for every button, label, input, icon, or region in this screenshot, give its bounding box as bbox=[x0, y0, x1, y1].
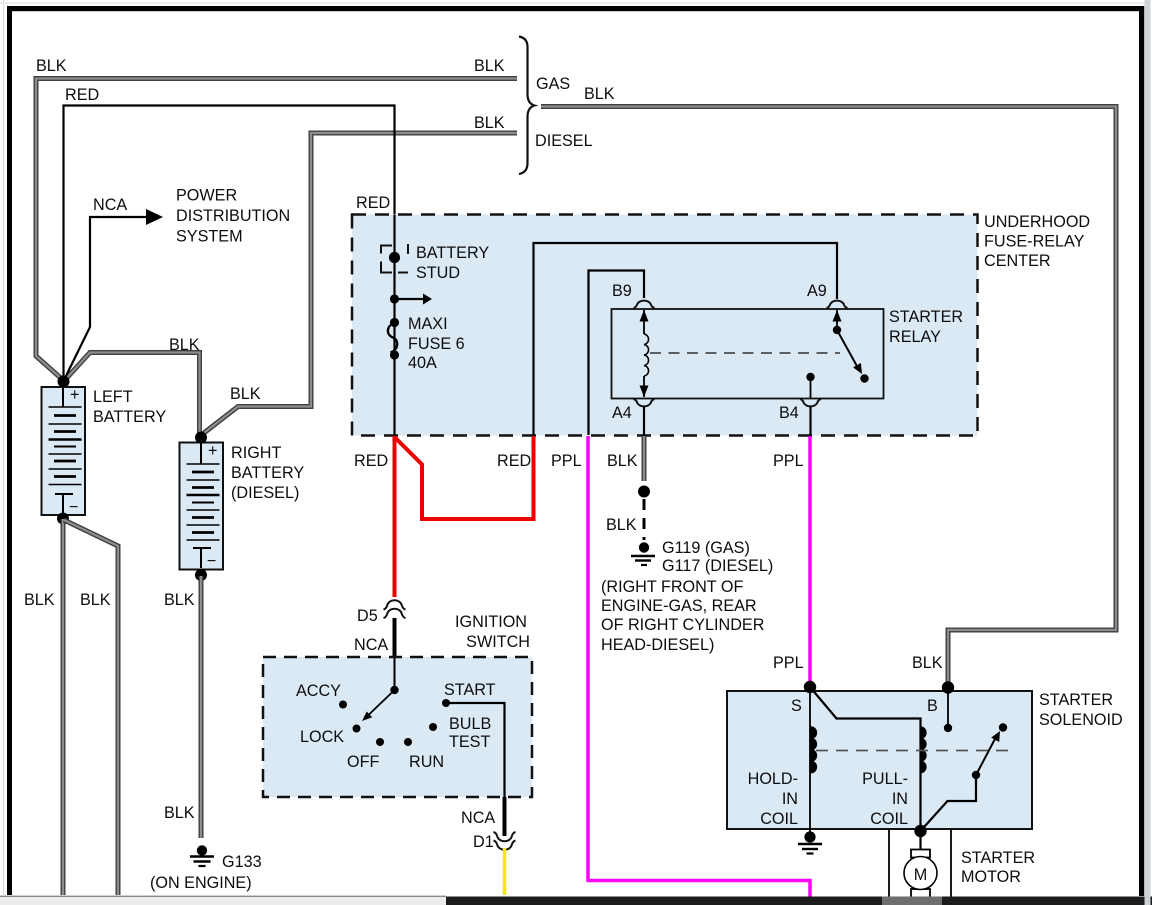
wire B9 coil feed inside box bbox=[589, 271, 645, 436]
pin B9 bbox=[634, 301, 655, 308]
bottom mask bar bbox=[0, 896, 446, 897]
wire BLK top-left to LEFT BATTERY bbox=[36, 79, 517, 381]
wire BLK left battery negative down bbox=[61, 519, 66, 895]
wire RED loop to A9 feed bbox=[395, 436, 534, 519]
battery RIGHT BATTERY (DIESEL) bbox=[180, 438, 224, 570]
svg-text:BLK: BLK bbox=[164, 804, 195, 822]
wire A9 feed inside box bbox=[534, 243, 838, 435]
svg-text:FUSE-RELAY: FUSE-RELAY bbox=[984, 233, 1085, 251]
node stud output junction with arrow tap bbox=[390, 294, 432, 305]
svg-text:GAS: GAS bbox=[536, 75, 570, 93]
svg-text:START: START bbox=[444, 681, 496, 699]
wire PPL B9 to bottom and across bbox=[588, 436, 810, 897]
svg-text:(RIGHT FRONT OF: (RIGHT FRONT OF bbox=[601, 578, 743, 596]
wire BLK A4 to ground bbox=[642, 436, 647, 481]
pin B4 bbox=[800, 399, 821, 406]
node B contact bbox=[944, 724, 952, 732]
fuse MAXI FUSE 6 40A bbox=[388, 318, 399, 360]
svg-text:BLK: BLK bbox=[169, 336, 200, 354]
svg-text:LOCK: LOCK bbox=[300, 728, 344, 746]
ignition switch wiper bbox=[362, 658, 399, 721]
ground solenoid hold-in coil bbox=[798, 831, 822, 853]
svg-text:LEFT: LEFT bbox=[93, 388, 133, 406]
node right battery negative bbox=[195, 569, 207, 581]
wire RED below fuse to D5 bbox=[393, 436, 397, 597]
svg-text:IN: IN bbox=[892, 790, 908, 808]
svg-text:MAXI: MAXI bbox=[408, 315, 448, 333]
svg-text:A9: A9 bbox=[807, 282, 827, 300]
svg-text:BLK: BLK bbox=[607, 452, 638, 470]
svg-text:SOLENOID: SOLENOID bbox=[1039, 711, 1123, 729]
svg-text:SYSTEM: SYSTEM bbox=[176, 228, 243, 246]
node B terminal bbox=[942, 681, 954, 693]
svg-text:IN: IN bbox=[782, 790, 798, 808]
relay coil (B9 to A4) bbox=[640, 310, 649, 397]
battery LEFT BATTERY bbox=[42, 383, 86, 516]
pin A4 bbox=[634, 399, 655, 406]
node left battery positive junction bbox=[58, 376, 70, 388]
wire PPL B4 to solenoid S bbox=[808, 436, 812, 684]
coil HOLD-IN COIL bbox=[811, 727, 816, 773]
svg-text:NCA: NCA bbox=[354, 636, 388, 654]
svg-text:−: − bbox=[69, 498, 78, 516]
svg-text:M: M bbox=[914, 866, 927, 884]
svg-text:BULB: BULB bbox=[449, 715, 491, 733]
wire BLK diesel branch to RIGHT BATTERY bbox=[200, 133, 517, 436]
box UNDERHOOD FUSE-RELAY CENTER bbox=[352, 215, 978, 436]
hold-in coil wire bbox=[809, 687, 811, 840]
svg-text:STARTER: STARTER bbox=[961, 849, 1035, 867]
svg-text:G119 (GAS): G119 (GAS) bbox=[662, 539, 750, 557]
svg-text:RELAY: RELAY bbox=[889, 328, 941, 346]
svg-text:ENGINE-GAS, REAR: ENGINE-GAS, REAR bbox=[601, 597, 757, 615]
arrow to POWER DISTRIBUTION SYSTEM bbox=[146, 209, 163, 225]
svg-text:BLK: BLK bbox=[912, 654, 943, 672]
node A4 ground splice bbox=[638, 486, 650, 498]
svg-text:RIGHT: RIGHT bbox=[231, 444, 281, 462]
solenoid switch arm arrow bbox=[976, 731, 1000, 775]
svg-text:(ON ENGINE): (ON ENGINE) bbox=[150, 874, 252, 892]
relay switch arm from A9 bbox=[833, 310, 869, 383]
svg-text:RUN: RUN bbox=[409, 753, 444, 771]
svg-text:STARTER: STARTER bbox=[1039, 691, 1113, 709]
svg-text:D1: D1 bbox=[473, 833, 494, 851]
svg-text:RED: RED bbox=[356, 194, 390, 212]
svg-text:BLK: BLK bbox=[164, 591, 195, 609]
svg-text:40A: 40A bbox=[408, 354, 437, 372]
svg-text:OF RIGHT CYLINDER: OF RIGHT CYLINDER bbox=[601, 616, 764, 634]
relay internal dashed link bbox=[650, 352, 840, 354]
svg-text:S: S bbox=[791, 697, 802, 715]
svg-text:+: + bbox=[70, 386, 79, 404]
svg-text:B: B bbox=[927, 697, 938, 715]
svg-text:HEAD-DIESEL): HEAD-DIESEL) bbox=[601, 636, 714, 654]
svg-text:STUD: STUD bbox=[416, 264, 460, 282]
node ACCY bbox=[339, 701, 347, 709]
wire feed through fuse center (battery stud to fuse to bottom) bbox=[393, 215, 395, 435]
box IGNITION SWITCH bbox=[263, 657, 532, 797]
wire BLK gas-output from brace to right side down to solenoid B bbox=[541, 107, 1116, 687]
pin A9 bbox=[827, 301, 848, 308]
svg-text:BATTERY: BATTERY bbox=[416, 244, 489, 262]
node BULB TEST bbox=[429, 723, 437, 731]
box STARTER SOLENOID bbox=[727, 691, 1032, 829]
node RUN bbox=[404, 738, 412, 746]
svg-text:DISTRIBUTION: DISTRIBUTION bbox=[176, 207, 290, 225]
svg-text:A4: A4 bbox=[612, 404, 632, 422]
svg-text:BATTERY: BATTERY bbox=[231, 464, 304, 482]
svg-text:PPL: PPL bbox=[773, 452, 804, 470]
svg-text:RED: RED bbox=[65, 86, 99, 104]
svg-text:PULL-: PULL- bbox=[862, 770, 908, 788]
svg-text:UNDERHOOD: UNDERHOOD bbox=[984, 213, 1090, 231]
coil PULL-IN COIL bbox=[921, 727, 926, 773]
wire A4 pin to box bottom bbox=[643, 407, 645, 435]
svg-text:D5: D5 bbox=[357, 607, 378, 625]
svg-text:FUSE 6: FUSE 6 bbox=[408, 335, 465, 353]
relay B4 contact bbox=[806, 373, 814, 398]
svg-text:BLK: BLK bbox=[36, 57, 67, 75]
node S terminal bbox=[804, 681, 816, 693]
brace GAS/DIESEL bbox=[519, 37, 535, 175]
wire B4 pin to box bottom bbox=[809, 407, 811, 435]
svg-text:BLK: BLK bbox=[474, 114, 505, 132]
battery stud BATTERY STUD bbox=[381, 244, 408, 273]
node starter motor junction bbox=[914, 825, 926, 837]
svg-text:OFF: OFF bbox=[347, 753, 379, 771]
svg-text:NCA: NCA bbox=[461, 809, 495, 827]
wire to starter motor bbox=[919, 831, 921, 850]
svg-text:BLK: BLK bbox=[80, 591, 111, 609]
wire BLK left battery negative diagonal down bbox=[64, 520, 118, 895]
wire BLK dashed to ground G119/G117 bbox=[643, 499, 646, 540]
svg-text:+: + bbox=[208, 442, 217, 460]
svg-text:HOLD-: HOLD- bbox=[748, 770, 798, 788]
motor STARTER MOTOR bbox=[904, 850, 937, 899]
svg-text:RED: RED bbox=[497, 452, 531, 470]
node START bbox=[442, 699, 450, 707]
node left battery negative bbox=[57, 513, 69, 525]
svg-text:POWER: POWER bbox=[176, 187, 237, 205]
svg-text:ACCY: ACCY bbox=[296, 682, 341, 700]
wire B contact stub bbox=[947, 688, 949, 726]
wire START to D1 bbox=[446, 703, 505, 797]
svg-text:TEST: TEST bbox=[449, 733, 490, 751]
svg-text:PPL: PPL bbox=[773, 654, 804, 672]
node right battery positive bbox=[195, 432, 207, 444]
starter motor pocket walls bbox=[888, 829, 890, 897]
solenoid internal dashed link bbox=[816, 750, 1008, 752]
wire BLK right battery to ground G133 bbox=[199, 576, 204, 838]
svg-text:CENTER: CENTER bbox=[984, 252, 1051, 270]
wire YEL D1 to bottom bbox=[503, 848, 507, 895]
ground G119/G117 bbox=[631, 542, 655, 565]
solenoid switch linkage bbox=[921, 775, 977, 831]
svg-text:BLK: BLK bbox=[230, 385, 261, 403]
scan edge artifacts bbox=[3, 0, 4, 895]
svg-text:(DIESEL): (DIESEL) bbox=[231, 484, 299, 502]
svg-text:STARTER: STARTER bbox=[889, 308, 963, 326]
svg-text:IGNITION: IGNITION bbox=[455, 613, 527, 631]
connector D1 bbox=[494, 832, 516, 850]
svg-text:COIL: COIL bbox=[760, 810, 798, 828]
svg-text:MOTOR: MOTOR bbox=[961, 868, 1021, 886]
connector D5 bbox=[384, 600, 406, 618]
svg-text:COIL: COIL bbox=[870, 810, 908, 828]
wire NCA to power distribution system bbox=[64, 217, 147, 380]
svg-text:G117 (DIESEL): G117 (DIESEL) bbox=[662, 557, 773, 575]
svg-text:SWITCH: SWITCH bbox=[466, 633, 530, 651]
svg-text:BATTERY: BATTERY bbox=[93, 408, 166, 426]
svg-text:G133: G133 bbox=[222, 853, 262, 871]
wire BLK left battery + to right battery + bbox=[64, 353, 200, 435]
svg-text:RED: RED bbox=[354, 452, 388, 470]
node solenoid switch pivot bbox=[972, 771, 980, 779]
svg-text:NCA: NCA bbox=[93, 196, 127, 214]
node OFF bbox=[376, 738, 384, 746]
svg-text:DIESEL: DIESEL bbox=[535, 132, 593, 150]
svg-text:BLK: BLK bbox=[24, 591, 55, 609]
svg-text:B9: B9 bbox=[612, 282, 632, 300]
svg-text:BLK: BLK bbox=[606, 516, 637, 534]
ground G133 bbox=[190, 845, 214, 866]
svg-text:BLK: BLK bbox=[474, 57, 505, 75]
node solenoid switch contact bbox=[999, 723, 1007, 731]
svg-text:PPL: PPL bbox=[551, 452, 582, 470]
svg-text:−: − bbox=[207, 552, 216, 570]
svg-text:B4: B4 bbox=[779, 404, 799, 422]
wire RED from battery up and across to fuse center bbox=[64, 106, 395, 382]
wire D5 to ignition switch bbox=[393, 618, 397, 658]
relay STARTER RELAY bbox=[612, 309, 884, 399]
node LOCK bbox=[353, 725, 361, 733]
wire S to pull-in coil bbox=[810, 687, 921, 831]
svg-text:BLK: BLK bbox=[584, 85, 615, 103]
